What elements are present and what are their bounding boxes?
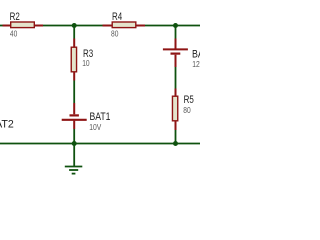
wire R5 to bottom bus <box>175 130 177 144</box>
wire R2 to R4 <box>43 25 103 27</box>
node junction 4 bottom <box>173 141 178 146</box>
wire R3 to BAT1 <box>73 81 75 104</box>
svg-text:BAT1: BAT1 <box>90 111 111 123</box>
top rail left wire <box>0 25 3 27</box>
resistor R4 <box>103 22 146 28</box>
node junction 3 bottom <box>72 141 77 146</box>
svg-text:12V: 12V <box>192 59 200 69</box>
svg-text:10V: 10V <box>89 122 101 132</box>
wire junction1 down to R3 <box>73 26 75 39</box>
wire junction2 down to BAT3 <box>175 26 177 39</box>
svg-text:R2: R2 <box>10 11 20 23</box>
bottom bus wire <box>0 143 200 145</box>
svg-text:BAT2: BAT2 <box>0 118 14 130</box>
wire BAT1 to bottom bus <box>73 129 75 144</box>
svg-text:40: 40 <box>10 29 18 39</box>
svg-text:80: 80 <box>111 29 119 39</box>
svg-text:R4: R4 <box>112 11 122 23</box>
resistor R2 <box>3 22 44 28</box>
node junction 2 top <box>173 23 178 28</box>
battery BAT1 <box>62 103 87 129</box>
battery BAT3 <box>163 39 188 68</box>
node junction 1 top <box>72 23 77 28</box>
wire BAT3 to R5 <box>175 67 177 89</box>
resistor R3 <box>71 39 76 81</box>
svg-text:80: 80 <box>183 105 191 115</box>
svg-text:10: 10 <box>82 58 90 68</box>
svg-text:R5: R5 <box>184 94 194 106</box>
wire R4 to right edge <box>145 25 200 27</box>
resistor R5 <box>172 89 177 131</box>
ground <box>65 144 83 174</box>
